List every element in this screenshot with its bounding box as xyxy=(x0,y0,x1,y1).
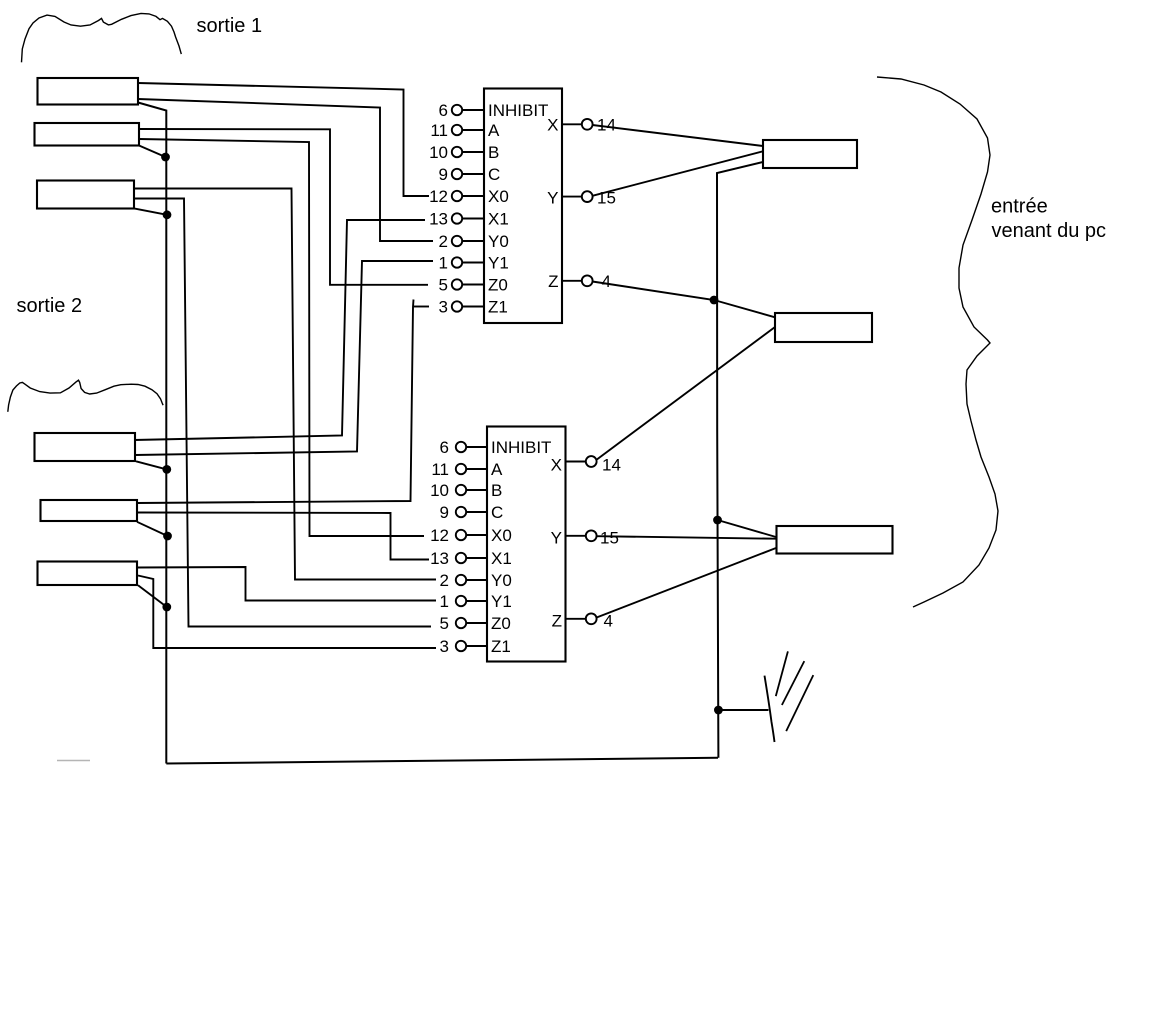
svg-text:6: 6 xyxy=(439,101,448,120)
svg-text:1: 1 xyxy=(440,592,449,611)
svg-text:entrée: entrée xyxy=(991,196,1048,218)
svg-text:5: 5 xyxy=(440,614,449,633)
svg-text:B: B xyxy=(488,143,499,162)
svg-text:10: 10 xyxy=(430,481,449,500)
svg-text:X: X xyxy=(551,456,562,475)
svg-text:C: C xyxy=(488,165,500,184)
svg-text:1: 1 xyxy=(439,254,448,273)
svg-text:12: 12 xyxy=(429,187,448,206)
svg-text:X: X xyxy=(547,116,558,135)
svg-text:X0: X0 xyxy=(491,526,512,545)
svg-text:Y: Y xyxy=(551,529,562,548)
svg-text:Y1: Y1 xyxy=(491,592,512,611)
svg-text:B: B xyxy=(491,481,502,500)
svg-text:X0: X0 xyxy=(488,187,509,206)
svg-text:Z: Z xyxy=(552,612,562,631)
svg-text:10: 10 xyxy=(429,143,448,162)
svg-text:Z: Z xyxy=(548,272,558,291)
svg-text:13: 13 xyxy=(430,549,449,568)
svg-text:9: 9 xyxy=(440,503,449,522)
svg-text:X1: X1 xyxy=(488,210,509,229)
svg-text:Y: Y xyxy=(547,189,558,208)
svg-text:Y0: Y0 xyxy=(491,571,512,590)
svg-text:11: 11 xyxy=(430,121,448,140)
svg-text:Z1: Z1 xyxy=(488,298,508,317)
svg-text:venant du pc: venant du pc xyxy=(992,220,1107,242)
svg-text:Y1: Y1 xyxy=(488,254,509,273)
svg-text:Z1: Z1 xyxy=(491,637,511,656)
svg-text:13: 13 xyxy=(429,210,448,229)
svg-text:3: 3 xyxy=(439,298,448,317)
svg-text:14: 14 xyxy=(602,456,621,475)
svg-text:9: 9 xyxy=(439,165,448,184)
svg-text:11: 11 xyxy=(431,460,449,479)
svg-text:2: 2 xyxy=(440,571,449,590)
svg-text:12: 12 xyxy=(430,526,449,545)
svg-text:INHIBIT: INHIBIT xyxy=(491,438,551,457)
svg-text:INHIBIT: INHIBIT xyxy=(488,101,548,120)
svg-text:Y0: Y0 xyxy=(488,232,509,251)
svg-text:A: A xyxy=(491,460,503,479)
svg-text:4: 4 xyxy=(602,272,611,291)
svg-text:sortie 2: sortie 2 xyxy=(17,295,83,317)
svg-text:3: 3 xyxy=(440,637,449,656)
svg-text:15: 15 xyxy=(600,529,619,548)
svg-text:2: 2 xyxy=(439,232,448,251)
svg-text:X1: X1 xyxy=(491,549,512,568)
svg-text:6: 6 xyxy=(440,438,449,457)
svg-text:5: 5 xyxy=(439,276,448,295)
svg-text:C: C xyxy=(491,503,503,522)
svg-text:sortie 1: sortie 1 xyxy=(197,15,263,37)
svg-text:A: A xyxy=(488,121,500,140)
svg-text:Z0: Z0 xyxy=(488,276,508,295)
svg-text:Z0: Z0 xyxy=(491,614,511,633)
